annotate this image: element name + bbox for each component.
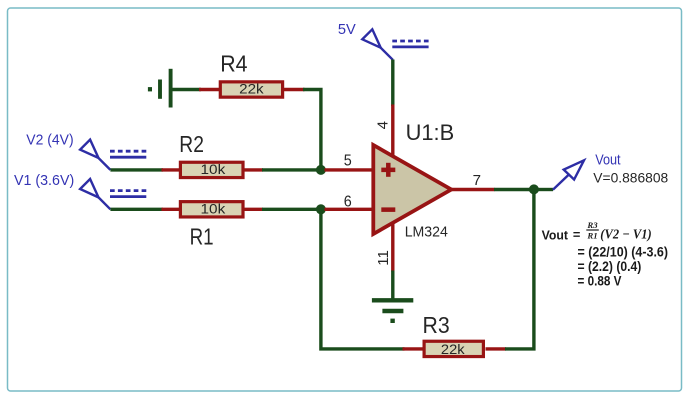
wire: node C to Vout terminal [538, 188, 554, 191]
svg-text:= 0.88 V: = 0.88 V [578, 274, 622, 289]
wire: pin 7 green segment to node C [494, 188, 530, 191]
resistor R2 [162, 162, 264, 177]
power terminal 5V [362, 29, 428, 60]
svg-text:R1: R1 [586, 231, 597, 241]
wire: R1 pin 2 to node B [262, 208, 317, 211]
svg-text:5: 5 [344, 152, 352, 169]
input terminal V1 [80, 179, 146, 209]
svg-text:22k: 22k [239, 82, 264, 97]
node A junction dot [316, 165, 326, 175]
svg-text:V2 (4V): V2 (4V) [26, 132, 73, 149]
wire: R2 pin 2 to node A [262, 168, 317, 171]
wire: node B down to R3 pin 1 (feedback) [321, 213, 405, 349]
wire: node A to U1 pin 5 [325, 168, 373, 171]
wire: GND1 to R4 pin 1 [173, 88, 202, 91]
wire: node B to U1 pin 6 [325, 208, 373, 211]
ground GND2 (below U1) [372, 300, 413, 323]
svg-text:11: 11 [375, 250, 392, 266]
wire: V1 terminal to R1 pin 1 [110, 208, 163, 211]
op-amp U1:B [373, 105, 451, 272]
svg-text:R4: R4 [220, 51, 247, 77]
svg-text:= (2.2) (0.4): = (2.2) (0.4) [578, 259, 642, 274]
svg-text:R3: R3 [423, 312, 450, 338]
svg-text:= (22/10) (4-3.6): = (22/10) (4-3.6) [578, 245, 669, 260]
ground GND1 (rotated, at R4 left) [148, 69, 171, 108]
resistor R4 [199, 82, 305, 97]
node B junction dot [316, 204, 326, 214]
node C junction dot [529, 184, 539, 194]
svg-text:Vout: Vout [595, 152, 620, 168]
wire: U1 pin 7 to node C (red pin segment) [450, 188, 495, 191]
svg-text:7: 7 [473, 172, 481, 189]
svg-text:22k: 22k [441, 342, 465, 357]
svg-text:=: = [573, 227, 580, 242]
svg-text:6: 6 [344, 194, 352, 211]
svg-text:10k: 10k [201, 162, 226, 177]
svg-text:R1: R1 [190, 223, 214, 249]
wire: V2 terminal to R2 pin 1 [110, 168, 163, 171]
svg-text:10k: 10k [201, 202, 226, 217]
svg-text:R3: R3 [586, 220, 598, 230]
wire: R3 pin 2 up to node C [505, 192, 534, 349]
wire: R4 pin 2 to node A (corner) [303, 90, 321, 170]
resistor R3 [403, 341, 507, 356]
svg-text:(V2 − V1): (V2 − V1) [600, 227, 651, 243]
svg-text:5V: 5V [338, 21, 356, 38]
svg-text:LM324: LM324 [405, 223, 448, 240]
svg-text:Vout: Vout [542, 227, 569, 242]
formula annotation: Vout = R3/R1 (V2-V1) [542, 220, 652, 242]
svg-text:V1 (3.6V): V1 (3.6V) [14, 172, 74, 189]
output terminal Vout [553, 160, 584, 189]
resistor R1 [162, 202, 264, 217]
wire: U1 pin 11 to GND2 [391, 271, 394, 299]
svg-text:V=0.886808: V=0.886808 [593, 171, 668, 186]
input terminal V2 [80, 140, 146, 170]
svg-text:R2: R2 [179, 131, 204, 157]
svg-text:4: 4 [375, 121, 392, 129]
wire: 5V terminal to U1 pin 4 [391, 60, 394, 107]
svg-text:U1:B: U1:B [406, 120, 455, 145]
